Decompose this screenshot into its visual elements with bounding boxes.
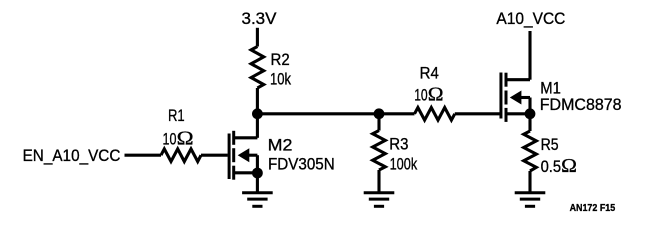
svg-text:AN172 F15: AN172 F15 xyxy=(570,203,616,214)
ground (R5) xyxy=(515,193,546,207)
wire M2 source to ground xyxy=(256,173,259,192)
resistor R3 xyxy=(373,131,386,171)
value 10Ω (R4) xyxy=(414,84,443,105)
svg-text:100k: 100k xyxy=(390,155,418,174)
wire EN_A10_VCC to R1 xyxy=(125,154,162,157)
svg-text:Ω: Ω xyxy=(561,156,577,177)
svg-text:Ω: Ω xyxy=(428,84,444,105)
ground (R3) xyxy=(364,193,395,207)
wire M1 source to R5 xyxy=(528,114,531,131)
node B junction xyxy=(374,108,385,119)
wire M2 drain to node A xyxy=(256,114,259,138)
wire R5 to ground xyxy=(528,171,531,192)
svg-text:R5: R5 xyxy=(541,135,559,154)
transistor M1 xyxy=(501,73,530,122)
wire node B to R3 xyxy=(377,114,380,131)
wire R4 to M1 gate xyxy=(455,112,500,115)
svg-text:3.3V: 3.3V xyxy=(242,9,278,28)
svg-text:10: 10 xyxy=(163,130,177,149)
resistor R4 xyxy=(415,108,455,121)
resistor R2 xyxy=(251,47,264,89)
transistor M2 xyxy=(229,131,257,180)
svg-text:0.5: 0.5 xyxy=(541,157,562,176)
svg-text:10k: 10k xyxy=(270,69,291,88)
wire R1 to M2 gate xyxy=(201,154,228,157)
svg-text:FDMC8878: FDMC8878 xyxy=(540,95,622,114)
svg-text:R2: R2 xyxy=(271,50,290,69)
value 0.5Ω xyxy=(541,156,577,177)
junction M2 source/bulk xyxy=(252,168,263,179)
junction M1 source/bulk xyxy=(525,108,536,119)
wire R3 to ground xyxy=(377,170,380,192)
svg-text:Ω: Ω xyxy=(177,129,194,150)
wire A10_VCC to M1 drain xyxy=(528,31,531,80)
svg-text:FDV305N: FDV305N xyxy=(268,154,335,173)
svg-text:R4: R4 xyxy=(420,63,439,82)
svg-text:A10_VCC: A10_VCC xyxy=(496,9,565,28)
value 10Ω (R1) xyxy=(163,129,194,150)
svg-text:M2: M2 xyxy=(268,136,293,155)
wire node A to node B xyxy=(257,112,379,115)
wire 3.3V to R2 xyxy=(256,28,259,47)
node A junction xyxy=(252,108,263,119)
resistor R5 xyxy=(524,131,537,171)
svg-text:EN_A10_VCC: EN_A10_VCC xyxy=(23,146,121,165)
svg-text:10: 10 xyxy=(414,85,428,104)
svg-text:R1: R1 xyxy=(168,106,185,125)
ground (M2) xyxy=(242,193,273,207)
wire R2 to node A xyxy=(256,88,259,114)
svg-text:R3: R3 xyxy=(389,135,408,154)
resistor R1 xyxy=(161,149,201,162)
wire node B to R4 xyxy=(379,112,415,115)
